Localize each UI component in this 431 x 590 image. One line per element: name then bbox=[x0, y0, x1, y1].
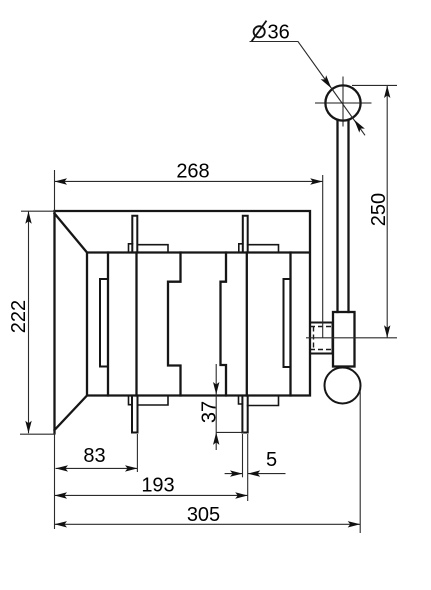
dim 193 extension line bbox=[247, 434, 249, 501]
arrow 83 left bbox=[56, 465, 69, 471]
top tab B step bbox=[239, 244, 243, 252]
blade line 2 bbox=[246, 253, 248, 396]
bottom tab A' step bbox=[129, 397, 133, 405]
svg-text:268: 268 bbox=[176, 161, 209, 183]
svg-text:305: 305 bbox=[187, 504, 220, 526]
arrow 268 left bbox=[55, 178, 68, 184]
leader Ø36 diagonal through circle bbox=[332, 89, 365, 135]
dim 222 line bbox=[28, 211, 30, 433]
dim 37 line bbox=[216, 364, 244, 450]
arrow 222 top bbox=[25, 211, 31, 224]
dim 83 line bbox=[56, 467, 138, 469]
svg-text:193: 193 bbox=[141, 475, 174, 497]
arrow 5 left (outside, pointing right) bbox=[230, 470, 243, 476]
arrow 268 right bbox=[310, 178, 323, 184]
inner wall right bbox=[289, 253, 291, 396]
dim 193 line bbox=[55, 494, 248, 496]
left pad rect bbox=[100, 279, 108, 367]
knob circle bbox=[325, 85, 360, 120]
handle block bbox=[333, 312, 355, 367]
dim 222 extension lines bbox=[20, 211, 56, 434]
top tab A flange bbox=[137, 245, 168, 252]
arrow 305 right bbox=[348, 521, 361, 527]
top tab A bbox=[132, 216, 137, 253]
arrow Ø36 lower bbox=[354, 120, 365, 133]
top tab B bbox=[243, 216, 248, 253]
dim 5 lines bbox=[225, 473, 286, 475]
svg-text:222: 222 bbox=[8, 300, 30, 333]
inner wall left bbox=[107, 253, 109, 396]
dim 250 extension lines bbox=[306, 85, 397, 337]
arrow 5 right (outside, pointing left) bbox=[248, 470, 261, 476]
arrow 37 bottom (outside, pointing up) bbox=[213, 432, 219, 445]
left extension line below body bbox=[54, 433, 56, 529]
bottom tab B' step bbox=[239, 397, 243, 405]
centerlines of knob bbox=[315, 77, 372, 127]
arrow 250 bottom bbox=[384, 325, 390, 338]
arrow 250 top bbox=[384, 86, 390, 99]
svg-text:37: 37 bbox=[198, 401, 220, 423]
arrow Ø36 upper bbox=[321, 75, 332, 88]
dim 250 line bbox=[386, 86, 388, 338]
blade line 1 bbox=[135, 253, 137, 396]
right pad rect bbox=[284, 279, 291, 367]
svg-text:5: 5 bbox=[266, 449, 277, 471]
dim 305 extension line right bbox=[359, 391, 361, 533]
bottom tab A' flange bbox=[138, 397, 169, 406]
arrow 193 left bbox=[55, 492, 68, 498]
top tab B flange bbox=[248, 245, 279, 252]
bottom tab B' bbox=[242, 396, 247, 433]
moving contact I-profile left bbox=[168, 253, 181, 396]
arrow 222 bottom bbox=[25, 421, 31, 434]
arrow 193 right bbox=[235, 492, 248, 498]
dim 83 extension line bbox=[136, 434, 138, 472]
moving contact I-profile right bbox=[221, 253, 227, 396]
arrow 37 top (outside, pointing down) bbox=[213, 382, 219, 395]
ball knob bbox=[325, 368, 361, 404]
bottom tab A' bbox=[132, 396, 138, 433]
arrow 305 left bbox=[55, 521, 68, 527]
dim 268 extension lines bbox=[55, 170, 323, 338]
arrow 83 right bbox=[125, 465, 138, 471]
shaft socket protrusion bbox=[310, 323, 333, 354]
leader Ø36 shelf bbox=[250, 42, 333, 90]
svg-text:36: 36 bbox=[268, 22, 290, 44]
handle shaft bbox=[338, 120, 349, 312]
top tab A step bbox=[129, 244, 133, 252]
dim 268 line bbox=[55, 180, 323, 182]
body outline bbox=[55, 211, 311, 433]
hidden shaft hole (dashed) bbox=[310, 327, 333, 350]
svg-text:83: 83 bbox=[83, 445, 105, 467]
dim 5 extension line bbox=[242, 434, 244, 477]
svg-text:250: 250 bbox=[368, 193, 390, 226]
bottom tab B' flange bbox=[248, 397, 279, 406]
label Ø36 diameter symbol bbox=[252, 21, 267, 42]
dim 305 line bbox=[55, 523, 361, 525]
